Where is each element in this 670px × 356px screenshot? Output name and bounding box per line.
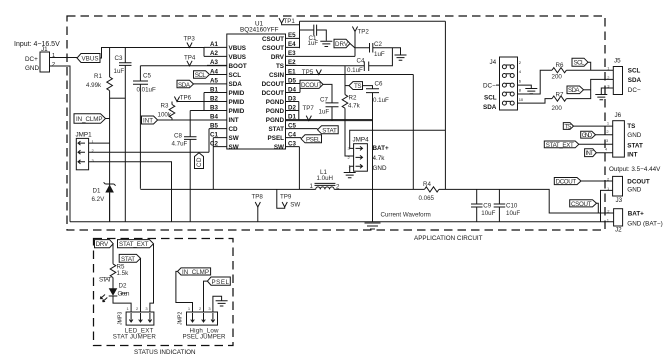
svg-text:DCOUT: DCOUT — [627, 179, 650, 186]
svg-text:CSOUT: CSOUT — [262, 45, 284, 52]
svg-text:R3: R3 — [161, 103, 169, 110]
svg-text:PGND: PGND — [266, 117, 285, 124]
svg-text:1.5k: 1.5k — [117, 270, 130, 277]
svg-text:CSOUT: CSOUT — [262, 36, 284, 43]
svg-text:200: 200 — [552, 74, 563, 81]
svg-text:R1: R1 — [94, 73, 102, 80]
svg-text:PMID: PMID — [229, 90, 245, 97]
svg-text:DC−: DC− — [628, 87, 641, 94]
svg-text:PGND: PGND — [266, 108, 285, 115]
svg-text:D1: D1 — [93, 188, 101, 195]
svg-text:4: 4 — [519, 69, 522, 74]
svg-text:2: 2 — [519, 60, 522, 65]
svg-text:0.1uF: 0.1uF — [373, 97, 389, 104]
svg-text:STAT: STAT — [99, 277, 112, 284]
svg-text:PMID: PMID — [229, 108, 245, 115]
svg-text:2: 2 — [136, 306, 139, 311]
svg-text:C2: C2 — [374, 41, 382, 48]
svg-text:1uF: 1uF — [374, 51, 385, 58]
svg-text:TP4: TP4 — [184, 55, 196, 62]
svg-text:2: 2 — [606, 129, 609, 134]
svg-text:J5: J5 — [614, 58, 621, 65]
svg-text:SCL: SCL — [195, 72, 207, 79]
svg-text:SDA: SDA — [628, 77, 642, 84]
svg-text:PGND: PGND — [266, 99, 285, 106]
svg-text:C9: C9 — [483, 203, 491, 210]
svg-text:SDA: SDA — [483, 104, 497, 111]
svg-text:INT: INT — [627, 152, 637, 159]
svg-text:0.065: 0.065 — [419, 195, 435, 202]
svg-text:IN_CLMP: IN_CLMP — [182, 269, 209, 276]
svg-text:TP3: TP3 — [184, 36, 196, 43]
svg-text:JMP2: JMP2 — [178, 312, 184, 325]
svg-text:STAT JUMPER: STAT JUMPER — [113, 334, 157, 341]
svg-text:6.2V: 6.2V — [92, 196, 106, 203]
svg-text:SCL: SCL — [574, 60, 586, 67]
svg-text:1uF: 1uF — [319, 109, 330, 116]
svg-text:TS: TS — [564, 124, 571, 131]
svg-text:SW: SW — [229, 144, 239, 151]
svg-text:TP8: TP8 — [252, 194, 264, 201]
svg-text:BOOT: BOOT — [229, 63, 247, 70]
svg-text:C8: C8 — [174, 133, 182, 140]
svg-text:GND: GND — [627, 132, 641, 139]
svg-text:10uF: 10uF — [506, 210, 520, 217]
svg-text:SW: SW — [229, 135, 239, 142]
svg-text:VBUS: VBUS — [229, 54, 247, 61]
svg-text:PSEL: PSEL — [212, 279, 230, 286]
svg-text:DC−: DC− — [483, 83, 496, 90]
svg-text:VBUS: VBUS — [229, 45, 247, 52]
svg-text:SDA: SDA — [568, 87, 580, 94]
svg-text:SCL: SCL — [229, 72, 242, 79]
svg-text:TP6: TP6 — [180, 95, 192, 102]
svg-text:DC+: DC+ — [25, 56, 38, 63]
svg-text:C4: C4 — [357, 58, 365, 65]
svg-text:CD: CD — [229, 126, 239, 133]
svg-text:200: 200 — [552, 105, 563, 112]
svg-text:STAT: STAT — [627, 143, 643, 150]
svg-text:4.7k: 4.7k — [373, 155, 386, 162]
svg-text:PSEL: PSEL — [268, 135, 285, 142]
svg-text:1uF: 1uF — [308, 40, 319, 47]
svg-text:DCOUT: DCOUT — [556, 178, 577, 185]
svg-text:DRV: DRV — [96, 241, 109, 248]
svg-text:PSEL: PSEL — [306, 137, 321, 144]
svg-text:STAT: STAT — [121, 256, 135, 263]
svg-text:STATUS INDICATION: STATUS INDICATION — [134, 349, 196, 356]
svg-text:SDA: SDA — [229, 81, 243, 88]
svg-text:R2: R2 — [349, 94, 357, 101]
svg-text:CD: CD — [196, 157, 203, 167]
svg-text:0.1uF: 0.1uF — [347, 67, 363, 74]
svg-text:TS: TS — [276, 63, 284, 70]
svg-text:R4: R4 — [423, 181, 431, 188]
svg-text:3: 3 — [145, 306, 148, 311]
svg-text:DCOUT: DCOUT — [262, 81, 285, 88]
svg-text:STAT: STAT — [322, 128, 337, 135]
svg-text:1: 1 — [310, 183, 314, 190]
svg-text:J4: J4 — [490, 59, 497, 66]
svg-text:1.0uH: 1.0uH — [317, 175, 334, 182]
svg-text:1: 1 — [607, 121, 610, 126]
svg-text:GND (BAT−): GND (BAT−) — [627, 220, 662, 227]
svg-text:C7: C7 — [320, 97, 328, 104]
svg-text:10: 10 — [519, 97, 524, 102]
svg-text:C10: C10 — [506, 203, 518, 210]
svg-text:JMP4: JMP4 — [353, 137, 370, 144]
svg-text:R6: R6 — [556, 62, 564, 69]
svg-text:INT: INT — [143, 118, 153, 125]
svg-text:TS: TS — [627, 123, 635, 130]
svg-text:6: 6 — [519, 79, 522, 84]
svg-text:3: 3 — [208, 306, 211, 311]
svg-text:CSOUT: CSOUT — [571, 201, 592, 208]
svg-text:Output: 3.5−4.44V: Output: 3.5−4.44V — [609, 166, 661, 173]
svg-text:INT: INT — [586, 150, 594, 157]
svg-text:BQ24160YFF: BQ24160YFF — [240, 27, 279, 34]
svg-text:PMID: PMID — [229, 99, 245, 106]
svg-text:1: 1 — [52, 53, 55, 59]
svg-text:4.7k: 4.7k — [348, 103, 361, 110]
svg-text:A5: A5 — [210, 77, 218, 84]
svg-text:0.01uF: 0.01uF — [137, 87, 156, 94]
svg-text:1: 1 — [127, 306, 130, 311]
svg-text:SDA: SDA — [178, 82, 191, 89]
svg-text:C3: C3 — [115, 55, 123, 62]
svg-text:2: 2 — [199, 306, 202, 311]
svg-text:4.99k: 4.99k — [86, 82, 102, 89]
svg-text:TP5: TP5 — [302, 69, 314, 76]
svg-text:TP2: TP2 — [358, 29, 370, 36]
svg-text:J6: J6 — [615, 112, 622, 119]
svg-text:J3: J3 — [616, 197, 623, 204]
svg-text:D2: D2 — [119, 283, 127, 290]
svg-text:STAT_EXT: STAT_EXT — [119, 241, 149, 248]
svg-text:C5: C5 — [143, 73, 151, 80]
svg-text:TS: TS — [354, 83, 362, 90]
svg-text:2: 2 — [336, 184, 340, 191]
svg-text:4.7uF: 4.7uF — [172, 141, 188, 148]
svg-text:CSIN: CSIN — [269, 72, 284, 79]
svg-text:DRV: DRV — [335, 41, 349, 48]
svg-text:SCL: SCL — [628, 68, 641, 75]
svg-text:JMP3: JMP3 — [117, 312, 123, 325]
svg-text:GND: GND — [582, 132, 593, 139]
svg-text:GND: GND — [627, 187, 641, 194]
svg-text:BAT+: BAT+ — [373, 145, 389, 152]
svg-text:10uF: 10uF — [481, 210, 495, 217]
svg-text:GND: GND — [25, 65, 39, 72]
svg-text:IN_CLMP: IN_CLMP — [76, 116, 103, 123]
svg-text:1: 1 — [188, 306, 191, 311]
svg-text:VBUS: VBUS — [82, 56, 99, 63]
svg-text:BAT+: BAT+ — [628, 211, 644, 218]
svg-text:R7: R7 — [556, 92, 564, 99]
svg-text:4: 4 — [605, 147, 608, 152]
svg-text:JMP1: JMP1 — [76, 132, 93, 139]
svg-text:2: 2 — [52, 62, 55, 68]
svg-text:INT: INT — [229, 117, 239, 124]
svg-text:Green: Green — [118, 291, 131, 298]
svg-text:Input: 4−16.5V: Input: 4−16.5V — [14, 41, 60, 48]
svg-text:SCL: SCL — [484, 95, 497, 102]
svg-text:DCOUT: DCOUT — [301, 82, 322, 89]
svg-text:TP9: TP9 — [280, 194, 292, 201]
svg-text:B4: B4 — [210, 113, 218, 120]
svg-text:Current Waveform: Current Waveform — [381, 212, 431, 219]
svg-text:STAT: STAT — [268, 126, 284, 133]
svg-text:TP1: TP1 — [284, 18, 296, 25]
svg-text:SW: SW — [290, 202, 300, 209]
svg-text:1uF: 1uF — [114, 68, 125, 75]
svg-text:PSEL JUMPER: PSEL JUMPER — [183, 334, 227, 341]
svg-text:SW: SW — [274, 144, 284, 151]
svg-text:TP7: TP7 — [303, 105, 315, 112]
svg-text:DCOUT: DCOUT — [262, 90, 285, 97]
svg-text:8: 8 — [519, 88, 522, 93]
svg-text:J2: J2 — [615, 227, 622, 234]
svg-text:3: 3 — [606, 138, 609, 143]
svg-text:GND: GND — [373, 165, 387, 172]
svg-text:C6: C6 — [375, 80, 383, 87]
svg-text:APPLICATION CIRCUIT: APPLICATION CIRCUIT — [414, 235, 483, 242]
svg-text:100k: 100k — [158, 112, 172, 119]
svg-text:STAT_EXT: STAT_EXT — [546, 142, 574, 149]
svg-text:DRV: DRV — [271, 54, 285, 61]
